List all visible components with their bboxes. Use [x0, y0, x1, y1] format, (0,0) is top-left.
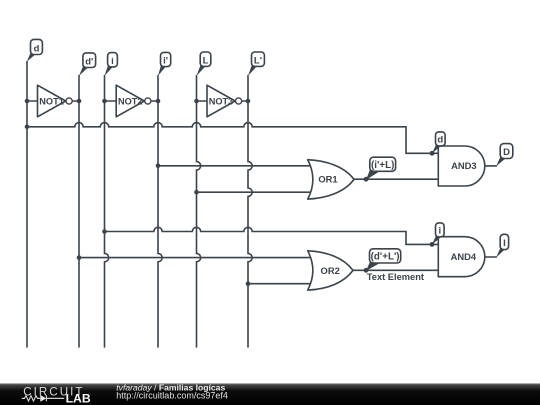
svg-text:L: L — [203, 55, 209, 66]
flag L' — [248, 52, 264, 76]
node NOT1 output junction — [77, 99, 82, 104]
svg-text:I: I — [503, 238, 506, 249]
svg-text:NOT1: NOT1 — [39, 96, 64, 106]
logo resistor-diode symbol — [22, 396, 64, 402]
or-gate OR1 — [308, 160, 354, 199]
node i'/OR1 junction — [156, 164, 161, 169]
wire AND4 output — [485, 256, 497, 258]
wire d bus to AND3 top input — [27, 123, 438, 154]
inverter NOT1 — [38, 85, 73, 117]
node L/OR1 junction — [194, 190, 199, 195]
wire d vertical — [26, 62, 28, 348]
svg-text:(d'+L'): (d'+L') — [371, 252, 400, 263]
and-gate AND4 — [438, 237, 485, 277]
svg-text:i: i — [111, 56, 114, 67]
svg-text:AND3: AND3 — [451, 160, 477, 171]
svg-text:OR2: OR2 — [321, 265, 340, 276]
wire d' to OR2 input 1 — [79, 257, 313, 259]
wire L' vertical — [248, 76, 252, 348]
svg-text:Text Element: Text Element — [367, 272, 424, 282]
wire L' to OR2 input 2 — [248, 283, 313, 285]
node NOT3 output junction — [246, 99, 251, 104]
label (i'+L) on OR1 output — [366, 157, 396, 180]
wire OR1 output to AND3 input 2 — [354, 178, 438, 180]
flag i — [105, 53, 118, 76]
and-gate AND3 — [438, 146, 485, 186]
wire NOT2 input stub — [105, 100, 117, 102]
node d'/OR2 junction — [77, 255, 82, 260]
label (d'+L') on OR2 output — [366, 249, 401, 271]
wire NOT3 output stub — [242, 100, 248, 102]
wire NOT2 output stub — [151, 100, 158, 102]
wire i vertical — [105, 76, 109, 348]
wire L vertical — [197, 76, 201, 348]
svg-text:LAB: LAB — [66, 392, 91, 405]
node d bus junction — [25, 125, 30, 130]
wire d' vertical — [78, 76, 80, 348]
node OR2 output label junction — [364, 268, 369, 273]
or-gate OR2 — [308, 251, 353, 290]
node i/AND4 line junction — [102, 229, 107, 234]
svg-text:NOT2: NOT2 — [118, 96, 143, 106]
flag i' — [158, 52, 171, 76]
inverter NOT3 — [207, 85, 242, 117]
wire L to OR1 input 2 — [197, 191, 314, 193]
flag I (AND4 output) — [496, 234, 508, 257]
svg-text:AND4: AND4 — [451, 251, 477, 262]
svg-text:L': L' — [254, 55, 262, 66]
svg-text:NOT3: NOT3 — [209, 96, 234, 106]
svg-text:(i'+L): (i'+L) — [371, 160, 394, 171]
wire AND3 output — [485, 165, 497, 167]
wire NOT1 input stub — [27, 100, 38, 102]
wire NOT1 output stub — [72, 100, 79, 102]
flag d (top input) — [27, 39, 43, 61]
svg-text:d: d — [437, 135, 443, 146]
svg-text:i: i — [438, 226, 441, 237]
svg-text:d': d' — [85, 56, 93, 67]
svg-text:i': i' — [163, 56, 168, 67]
wire OR2 output to AND4 input 2 — [353, 269, 438, 271]
footer bar — [0, 383, 540, 405]
flag d (AND3 top input) — [432, 132, 445, 154]
svg-text:http://circuitlab.com/cs97ef4: http://circuitlab.com/cs97ef4 — [116, 390, 228, 400]
flag i (AND4 top input) — [432, 223, 444, 245]
node d/NOT1 input junction — [25, 99, 30, 104]
svg-text:D: D — [503, 147, 510, 158]
wire i' to OR1 input 1 — [158, 165, 313, 167]
wire i' vertical — [158, 76, 162, 348]
svg-text:OR1: OR1 — [318, 173, 337, 184]
node AND4 top input flag junction — [430, 242, 435, 247]
node i/NOT2 input junction — [102, 99, 107, 104]
flag d' — [79, 53, 96, 76]
node OR1 output label junction — [364, 177, 369, 182]
wire i to AND4 top input — [105, 227, 439, 244]
flag D (AND3 output) — [496, 144, 513, 167]
node AND3 top input flag junction — [430, 151, 435, 156]
node L/NOT3 input junction — [194, 99, 199, 104]
inverter NOT2 — [116, 85, 151, 117]
svg-text:d: d — [34, 43, 40, 54]
node NOT2 output junction — [156, 99, 161, 104]
node L'/OR2 junction — [246, 281, 251, 286]
wire NOT3 input stub — [197, 100, 208, 102]
flag L — [197, 52, 211, 76]
